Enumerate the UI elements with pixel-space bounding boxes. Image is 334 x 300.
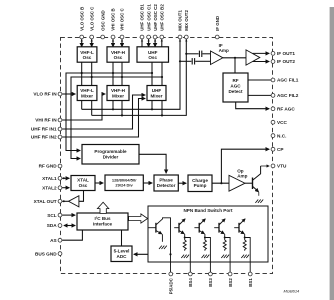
transistor Q1 port driver P5/ADC (149, 218, 171, 274)
pin OSC GND (101, 35, 105, 39)
pin VHI OSC C (120, 35, 124, 39)
wire VLO OSC C pin to VHF-L Osc (91, 39, 93, 47)
wire XTAL2 to XTAL Osc (62, 187, 69, 189)
svg-text:BS3: BS3 (208, 278, 213, 287)
svg-text:XTAL1: XTAL1 (42, 176, 57, 181)
transistor Q5 band switch BS1 (234, 219, 250, 274)
junction MIX OUT2 upper cap tap (185, 53, 187, 55)
wire phase detector to charge pump (178, 182, 186, 184)
svg-text:SDA: SDA (47, 223, 58, 228)
wire mixer output bus L2 to MIX OUT2 (92, 39, 187, 115)
wire UHF Osc to UHF Mixer line B (151, 62, 153, 85)
svg-text:BUS GND: BUS GND (35, 251, 57, 256)
wire upper cap to IF Amp (202, 53, 210, 55)
wire RF AGC Detect to AGC FIL1 (248, 79, 271, 81)
block UHF Mixer (147, 86, 166, 101)
wire SCL to I2C bus interface (62, 214, 75, 216)
junction charge pump output node (220, 182, 222, 184)
wire buffer to IF OUT2 (253, 61, 270, 63)
block RF AGC Detect U3 (223, 73, 248, 102)
pin UHF RF IN1 (58, 127, 62, 131)
block 5-Level ADC (111, 246, 132, 262)
wire XTAL OUT buffer to XTAL OUT pin (62, 200, 68, 202)
svg-text:Interface: Interface (93, 222, 113, 227)
svg-text:OSC GND: OSC GND (100, 10, 105, 31)
svg-text:CP: CP (277, 147, 284, 152)
pin SCL (58, 213, 62, 217)
svg-text:Detect: Detect (228, 89, 243, 94)
svg-text:Mixer: Mixer (112, 93, 124, 98)
pin UHF RF IN2 (58, 135, 62, 139)
wire VHI OSC B pin to VHF-H Osc (112, 39, 114, 47)
pin XTAL OUT (58, 199, 62, 203)
svg-text:VLO OSC B: VLO OSC B (79, 7, 84, 31)
wire UHF OSC C1 pin to UHF Osc (148, 39, 150, 47)
pin BS1 (248, 272, 252, 276)
svg-text:N.C.: N.C. (277, 133, 286, 138)
pin VLO OSC B (80, 35, 84, 39)
junction mixer bus L1 taps (112, 108, 114, 110)
block VHF-L Osc (77, 47, 97, 62)
wire VHF-L Mixer output stub to bus L1 (81, 101, 83, 110)
pin VCC (271, 120, 275, 124)
svg-text:SCL: SCL (47, 213, 57, 218)
svg-text:NPN Band Switch Port: NPN Band Switch Port (183, 208, 232, 213)
svg-text:VHF-L: VHF-L (80, 50, 94, 55)
svg-text:ADC: ADC (117, 254, 128, 259)
pin UHF OSC B1 (140, 35, 144, 39)
wire UHF Osc to UHF Mixer line C (161, 62, 163, 85)
svg-text:Charge: Charge (192, 178, 208, 183)
node I2C to band switch hollow right arrow (129, 214, 148, 223)
ground R3 (221, 255, 229, 258)
ground R2 (202, 255, 210, 258)
node output arrow under UHF OSC C1 (147, 40, 149, 42)
svg-text:UHF OSC C1: UHF OSC C1 (146, 4, 151, 31)
wire UHF OSC B1 pin to UHF Osc (141, 39, 143, 47)
node output arrow under UHF OSC B1 (141, 40, 143, 42)
svg-text:Mixer: Mixer (81, 93, 93, 98)
svg-text:Mixer: Mixer (150, 93, 162, 98)
pin MIX OUT2 (184, 35, 188, 39)
wire Q1 collector node to 5-level ADC tap (169, 253, 171, 255)
op-amp tuning Op Amp U4 (229, 168, 248, 191)
svg-text:AGC FIL1: AGC FIL1 (277, 78, 299, 83)
node output arrow under MIX OUT1 (179, 40, 181, 42)
wire VHI RF IN to VHF-H Mixer (62, 94, 105, 120)
resistor R2 (203, 240, 206, 251)
ground transistor Q6 emitter (255, 200, 263, 203)
svg-text:UHF OSC C2: UHF OSC C2 (153, 4, 158, 31)
pin UHF OSC C2 (153, 35, 157, 39)
wire IF Amp output to buffer (223, 57, 246, 59)
pin IF GND (215, 35, 219, 39)
pin IF OUT2 (271, 60, 275, 64)
pin UHF OSC B2 (160, 35, 164, 39)
wire VHF-L Mixer output stub to bus L2 (91, 101, 93, 116)
page right gray border (330, 7, 334, 300)
pin MIX OUT1 (178, 35, 182, 39)
node output arrow under VHI OSC B (112, 40, 114, 42)
wire buffer to IF OUT1 (253, 52, 270, 54)
svg-text:UHF: UHF (148, 50, 158, 55)
wire programmable divider to phase detector (139, 154, 166, 173)
pin RF GND (58, 164, 62, 168)
ground R1 (181, 255, 189, 258)
op-amp XTAL OUT buffer U5 (69, 196, 79, 207)
wire lower cap to IF Amp (195, 60, 210, 62)
op-amp IF output buffer U2 (246, 50, 260, 65)
resistor R3 (223, 240, 226, 251)
pin IF OUT1 (271, 52, 275, 56)
transistor Q2 band switch BS4 (174, 219, 190, 274)
pin RF AGC (271, 107, 275, 111)
svg-text:Osc: Osc (79, 183, 88, 188)
pin VTU (271, 164, 275, 168)
resistor R4 (243, 240, 246, 251)
wire charge pump to op amp (212, 182, 229, 184)
block Phase Detector (154, 175, 178, 191)
svg-text:VHF-L: VHF-L (80, 88, 94, 93)
svg-text:XTAL OUT: XTAL OUT (34, 199, 57, 204)
wire VHI OSC C pin to VHF-H Osc (121, 39, 123, 47)
svg-text:P5/ADC: P5/ADC (169, 277, 174, 294)
svg-text:UHF OSC B1: UHF OSC B1 (140, 4, 145, 31)
junction mixer bus L2 taps (121, 114, 123, 116)
node output arrow under VLO OSC B (81, 40, 83, 42)
node output arrow under UHF OSC B2 (161, 40, 163, 42)
wire XTAL Osc to XTAL OUT buffer (79, 191, 84, 202)
wire AGC tap down to RF AGC Detect (234, 58, 236, 73)
pin AGC FIL2 (271, 94, 275, 98)
wire band switch node to 5-level ADC (134, 253, 171, 255)
svg-text:Osc: Osc (83, 55, 92, 60)
svg-text:BS4: BS4 (188, 278, 193, 287)
svg-text:I²C Bus: I²C Bus (94, 216, 111, 221)
transistor Q4 band switch BS2 (214, 219, 230, 274)
svg-text:UHF OSC B2: UHF OSC B2 (160, 4, 165, 31)
svg-text:RF AGC: RF AGC (277, 106, 295, 111)
transistor Q6 VTU output (253, 166, 270, 196)
block VHF-L Mixer (77, 86, 97, 101)
wire VHF-H Osc to VHF-H Mixer line C (121, 62, 123, 85)
pin SDA (58, 224, 62, 228)
node output arrow under VLO OSC C (91, 40, 93, 42)
wire VHF-L Osc to VHF-L Mixer line C (91, 62, 93, 85)
svg-text:VHF-H: VHF-H (111, 88, 126, 93)
svg-text:UHF: UHF (152, 88, 162, 93)
pin XTAL1 (58, 176, 62, 180)
block reference divider 128/80/64/50 (105, 175, 143, 191)
svg-text:MGB614: MGB614 (284, 289, 301, 294)
wire reference divider to phase detector (143, 182, 152, 184)
svg-text:XTAL2: XTAL2 (42, 185, 57, 190)
capacitor C1 upper IF coupling (199, 51, 201, 57)
svg-text:VLO RF IN: VLO RF IN (33, 92, 57, 97)
junction IF amp output AGC tap (234, 57, 236, 59)
pin BUS GND (58, 252, 62, 256)
wire VHF-L Osc to VHF-L Mixer line B (81, 62, 83, 85)
block VHF-H Osc (107, 47, 129, 62)
node output arrow under UHF OSC C2 (154, 40, 156, 42)
wire charge pump node to CP pin (221, 149, 269, 183)
wire UHF Mixer output stub to bus L2 (161, 101, 163, 116)
junction MIX OUT1 lower cap tap (179, 60, 181, 62)
wire MIX OUT2 tap to upper coupling cap (186, 53, 198, 55)
svg-text:VTU: VTU (277, 164, 287, 169)
svg-text:IF GND: IF GND (215, 16, 220, 31)
block Charge Pump (188, 175, 212, 192)
pin BS3 (209, 272, 213, 276)
svg-text:5-Level: 5-Level (114, 248, 130, 253)
svg-text:VLO OSC C: VLO OSC C (89, 6, 94, 31)
ground Q1 emitter (159, 246, 167, 249)
svg-text:Amp: Amp (219, 48, 229, 53)
transistor Q3 band switch BS3 (194, 219, 210, 274)
block NPN Band Switch Port (148, 206, 268, 262)
wire I2C bus interface to 5-level ADC (121, 230, 123, 246)
junction XTAL OUT node (63, 200, 65, 202)
block VHF-H Mixer (107, 86, 129, 101)
pin VHI RF IN (58, 118, 62, 122)
svg-text:Divider: Divider (103, 155, 119, 160)
svg-text:Osc: Osc (148, 55, 157, 60)
svg-text:Programmable: Programmable (94, 149, 127, 154)
wire mixer output bus L1 to MIX OUT1 (82, 39, 180, 109)
wire RF AGC Detect to AGC FIL2 (248, 94, 271, 96)
wire SDA to I2C bus interface bidirectional (64, 225, 75, 227)
pin AS (58, 238, 62, 242)
svg-text:Detector: Detector (157, 183, 176, 188)
wire RF AGC Detect to RF AGC pin (236, 102, 270, 109)
wire XTAL Osc to reference divider (95, 182, 103, 184)
wire UHF RF IN1 to UHF Mixer (62, 95, 145, 129)
pin XTAL2 (58, 186, 62, 190)
svg-text:UHF RF IN2: UHF RF IN2 (31, 135, 57, 140)
svg-text:AS: AS (50, 238, 57, 243)
svg-text:Osc: Osc (114, 55, 123, 60)
svg-text:VHI RF IN: VHI RF IN (35, 118, 57, 123)
wire XTAL1 to XTAL Osc (62, 177, 69, 179)
wire UHF OSC B2 pin to UHF Osc (161, 39, 163, 47)
svg-text:Amp: Amp (237, 173, 247, 178)
node I2C control hollow up arrow (97, 202, 108, 213)
wire AS to I2C bus interface (62, 230, 82, 240)
junction LO bus 1 taps (81, 72, 83, 74)
wire LO bus 1 to programmable divider (66, 73, 152, 151)
block I2C Bus Interface (77, 213, 128, 230)
capacitor C2 lower IF coupling (192, 58, 194, 64)
svg-text:AGC FIL2: AGC FIL2 (277, 93, 299, 98)
wire UHF OSC C2 pin to UHF Osc (154, 39, 156, 47)
svg-text:BS1: BS1 (248, 278, 253, 287)
ground R4 (241, 255, 249, 258)
wire VLO RF IN to VHF-L Mixer (62, 93, 75, 95)
svg-text:MIX OUT1: MIX OUT1 (178, 10, 183, 31)
svg-text:IF OUT2: IF OUT2 (277, 59, 295, 64)
svg-text:RF GND: RF GND (39, 164, 58, 169)
pin BS2 (228, 272, 232, 276)
svg-text:IF OUT1: IF OUT1 (277, 51, 295, 56)
svg-text:29/24 Div: 29/24 Div (115, 183, 133, 188)
block XTAL Osc (71, 176, 95, 191)
svg-text:AGC: AGC (230, 83, 241, 88)
node output arrow under VHI OSC C (121, 40, 123, 42)
svg-text:VCC: VCC (277, 120, 288, 125)
pin BS4 (188, 272, 192, 276)
wire VHF-H Osc to VHF-H Mixer line B (112, 62, 114, 85)
wire UHF Mixer output stub to bus L1 (151, 101, 153, 110)
block UHF Osc (137, 47, 169, 62)
IC boundary dashed box (61, 38, 273, 274)
svg-text:BS2: BS2 (228, 278, 233, 287)
junction LO bus 2 taps (91, 76, 93, 78)
wire VHF-H Mixer output stub to bus L1 (112, 101, 114, 110)
wire MIX OUT1 tap to lower coupling cap (180, 60, 191, 62)
wire LO bus 2 to programmable divider (71, 77, 162, 159)
svg-text:Pump: Pump (194, 183, 207, 188)
wire UHF RF IN2 to UHF Mixer (62, 99, 145, 138)
block Programmable Divider (82, 145, 139, 165)
svg-text:MIX OUT2: MIX OUT2 (184, 10, 189, 31)
pin N.C. (271, 134, 275, 138)
pin VLO OSC C (90, 35, 94, 39)
wire VLO OSC B pin to VHF-L Osc (81, 39, 83, 47)
svg-text:RF: RF (232, 78, 238, 83)
pin CP (271, 147, 275, 151)
svg-text:VHF-H: VHF-H (111, 50, 126, 55)
node output arrow under MIX OUT2 (185, 40, 187, 42)
wire op amp to transistor base (245, 182, 253, 184)
pin P5/ADC (169, 272, 173, 276)
pin VLO RF IN (58, 92, 62, 96)
op-amp IF Amp U1 (211, 43, 230, 65)
resistor R1 (183, 240, 186, 251)
svg-text:Phase: Phase (159, 178, 173, 183)
svg-text:UHF RF IN1: UHF RF IN1 (31, 127, 57, 132)
svg-text:XTAL: XTAL (77, 178, 89, 183)
pin UHF OSC C1 (147, 35, 151, 39)
wire VHF-H Mixer output stub to bus L2 (121, 101, 123, 116)
pin VHI OSC B (111, 35, 115, 39)
svg-text:VHI OSC C: VHI OSC C (120, 8, 125, 31)
junction XTAL1 node (63, 177, 65, 179)
svg-text:VHI OSC B: VHI OSC B (111, 8, 116, 30)
pin AGC FIL1 (271, 78, 275, 82)
